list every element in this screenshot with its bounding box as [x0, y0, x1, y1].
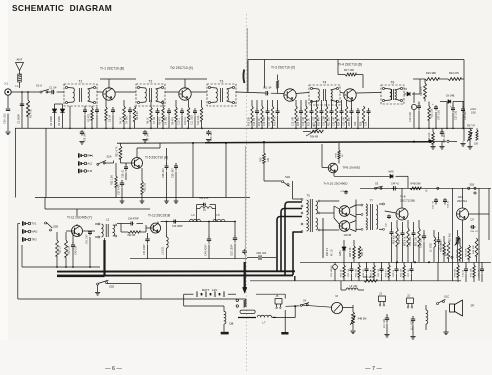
svg-text:R31 4.7K: R31 4.7K — [116, 146, 119, 157]
svg-text:R25 10K: R25 10K — [431, 108, 434, 118]
svg-text:L3 0.22: L3 0.22 — [162, 246, 165, 255]
svg-text:R4 1K: R4 1K — [120, 117, 123, 124]
svg-text:X4B 5M: X4B 5M — [358, 318, 367, 321]
svg-text:J-1: J-1 — [4, 82, 8, 86]
svg-text:SP: SP — [471, 304, 475, 308]
svg-text:C10 .1: C10 .1 — [178, 117, 181, 125]
svg-text:P0 .05: P0 .05 — [332, 249, 334, 256]
svg-text:R24 27K: R24 27K — [449, 71, 459, 75]
svg-text:C22 .047: C22 .047 — [334, 116, 336, 126]
svg-text:R9 47K: R9 47K — [172, 117, 175, 125]
svg-text:R32 1.8K: R32 1.8K — [111, 175, 114, 185]
svg-text:Tr-11 2SC495 (Y): Tr-11 2SC495 (Y) — [67, 216, 92, 220]
svg-text:C2 560P: C2 560P — [17, 114, 21, 124]
svg-text:R16 22K: R16 22K — [249, 117, 251, 126]
svg-text:S3: S3 — [375, 182, 379, 186]
svg-text:J5: J5 — [276, 294, 279, 298]
svg-text:R44 3.3K: R44 3.3K — [350, 247, 352, 257]
svg-text:— 7 —: — 7 — — [365, 366, 382, 372]
svg-text:C18 .047: C18 .047 — [303, 116, 305, 126]
svg-text:C23 .047: C23 .047 — [344, 116, 346, 126]
svg-text:S4: S4 — [303, 299, 307, 303]
svg-text:J2: J2 — [407, 294, 410, 298]
svg-text:C7 .04: C7 .04 — [153, 116, 156, 124]
svg-text:R71 10K: R71 10K — [471, 268, 473, 277]
svg-text:R27 47: R27 47 — [467, 125, 476, 128]
svg-text:SCHEMATIC DIAGRAM: SCHEMATIC DIAGRAM — [12, 3, 112, 13]
svg-text:R30 47K: R30 47K — [466, 248, 468, 257]
svg-text:R50 41K: R50 41K — [394, 235, 396, 244]
svg-text:C62 100/16: C62 100/16 — [331, 265, 333, 277]
svg-text:L0 .0082: L0 .0082 — [431, 242, 433, 252]
svg-text:C16 .047: C16 .047 — [264, 116, 266, 126]
svg-text:S1E: S1E — [109, 285, 114, 289]
svg-text:S2A: S2A — [107, 155, 112, 159]
svg-text:C38 .047: C38 .047 — [162, 168, 165, 178]
svg-text:L5: L5 — [217, 213, 220, 217]
svg-text:R70 560: R70 560 — [455, 268, 457, 277]
svg-text:R15 4.7K: R15 4.7K — [275, 116, 277, 126]
svg-text:C39 .047: C39 .047 — [172, 168, 175, 178]
svg-text:Tr-9,10 2SC496D: Tr-9,10 2SC496D — [323, 182, 348, 186]
svg-text:C14 .04: C14 .04 — [254, 117, 256, 126]
svg-text:T4: T4 — [323, 81, 327, 85]
svg-text:S1B: S1B — [470, 184, 475, 187]
svg-text:C4B .022: C4B .022 — [256, 252, 267, 255]
svg-text:C5 .0082: C5 .0082 — [441, 240, 443, 250]
svg-text:R19 1K: R19 1K — [309, 118, 311, 126]
svg-text:R1 47K: R1 47K — [29, 109, 33, 118]
svg-text:C11 .033: C11 .033 — [191, 115, 194, 125]
svg-text:C63 .04: C63 .04 — [348, 269, 350, 277]
svg-text:R3B: R3B — [336, 153, 338, 158]
svg-text:TR6 2SA562: TR6 2SA562 — [343, 166, 361, 170]
svg-text:ANT: ANT — [17, 58, 23, 62]
svg-text:TR3: TR3 — [31, 238, 37, 242]
svg-text:L9 .001: L9 .001 — [350, 285, 359, 288]
svg-text:C71 25: C71 25 — [463, 269, 465, 277]
svg-text:Tr-12 2SC191B: Tr-12 2SC191B — [148, 214, 170, 218]
svg-text:C36 .01: C36 .01 — [122, 169, 125, 178]
svg-text:C72 .05: C72 .05 — [479, 269, 481, 277]
svg-text:+: + — [411, 106, 413, 110]
svg-text:L4: L4 — [192, 213, 195, 217]
svg-text:R62 220: R62 220 — [356, 268, 358, 277]
svg-text:C9 .033: C9 .033 — [165, 116, 168, 125]
svg-text:A2B1: A2B1 — [339, 250, 342, 256]
svg-text:C4M A2NF: C4M A2NF — [205, 244, 208, 256]
svg-text:R35 1K: R35 1K — [445, 248, 447, 256]
svg-text:C4B .009: C4B .009 — [421, 238, 423, 248]
svg-text:R3B 56K: R3B 56K — [473, 245, 475, 254]
svg-text:R17 10K: R17 10K — [344, 68, 354, 72]
svg-text:R4B 56K: R4B 56K — [411, 182, 422, 186]
svg-text:T5: T5 — [307, 194, 311, 198]
svg-text:C41 1NF: C41 1NF — [86, 234, 89, 244]
svg-text:— 6 —: — 6 — — [105, 366, 122, 372]
svg-text:R36: R36 — [361, 121, 363, 126]
svg-text:R35 100: R35 100 — [144, 182, 147, 192]
svg-text:C5 .04: C5 .04 — [109, 114, 112, 122]
svg-text:D2 1N60: D2 1N60 — [58, 116, 61, 126]
svg-text:T6: T6 — [391, 81, 395, 85]
svg-text:C24: C24 — [355, 121, 357, 126]
svg-text:D1 1N60: D1 1N60 — [50, 116, 53, 126]
svg-text:R40: R40 — [260, 157, 263, 162]
svg-text:C0D 1B0P: C0D 1B0P — [231, 244, 234, 256]
svg-text:R64 4.7: R64 4.7 — [386, 269, 388, 277]
svg-text:R65 220: R65 220 — [401, 268, 403, 277]
svg-text:C44 200P: C44 200P — [143, 244, 146, 255]
svg-text:C1 .04: C1 .04 — [49, 87, 57, 90]
svg-text:Tr-4 2SC710 (D): Tr-4 2SC710 (D) — [338, 63, 362, 67]
svg-text:C66 50: C66 50 — [393, 269, 395, 277]
svg-text:C40 1MF: C40 1MF — [75, 245, 78, 255]
svg-text:C20 100P: C20 100P — [324, 115, 326, 126]
svg-text:C55 .01: C55 .01 — [470, 231, 478, 233]
svg-text:C52 .009: C52 .009 — [399, 234, 401, 244]
svg-text:R57 41K: R57 41K — [450, 233, 452, 242]
svg-text:1/50: 1/50 — [471, 112, 476, 115]
svg-text:R6 1K: R6 1K — [147, 117, 150, 124]
svg-text:R61 1B: R61 1B — [341, 269, 343, 277]
svg-text:R52 1K: R52 1K — [59, 246, 62, 254]
svg-text:5K: 5K — [313, 125, 316, 128]
svg-text:R23 39K: R23 39K — [426, 71, 436, 75]
svg-text:R5 6.8K: R5 6.8K — [136, 111, 139, 120]
svg-text:L7: L7 — [263, 321, 266, 325]
svg-text:C54 .003: C54 .003 — [410, 236, 412, 246]
svg-text:C27 100: C27 100 — [455, 110, 458, 120]
svg-text:1N0.0B: 1N0.0B — [344, 235, 352, 237]
svg-text:10K: 10K — [474, 143, 479, 146]
svg-text:R4B 1B0: R4B 1B0 — [363, 276, 373, 279]
svg-text:R12 10K: R12 10K — [197, 115, 200, 125]
svg-text:R22 47K: R22 47K — [420, 86, 423, 96]
svg-text:C19 10/6: C19 10/6 — [409, 112, 412, 122]
svg-text:C17 .047: C17 .047 — [269, 116, 271, 126]
svg-text:TX1: TX1 — [31, 222, 36, 226]
svg-text:C33 41: C33 41 — [448, 200, 450, 208]
svg-text:C26: C26 — [366, 121, 368, 126]
svg-text:R14 6R: R14 6R — [310, 136, 318, 139]
svg-text:S1-A: S1-A — [36, 84, 42, 88]
svg-text:R20 47K: R20 47K — [319, 117, 321, 126]
svg-text:P4F 4.2: P4F 4.2 — [327, 247, 329, 256]
svg-text:C32 .03: C32 .03 — [433, 201, 435, 209]
svg-text:Tr 5 2SC710 (A): Tr 5 2SC710 (A) — [145, 156, 168, 160]
svg-text:MAG: MAG — [31, 230, 37, 234]
svg-text:C4F 1B0P: C4F 1B0P — [172, 226, 183, 228]
svg-text:C15 .047: C15 .047 — [293, 116, 295, 126]
svg-text:C67 .02: C67 .02 — [408, 269, 410, 277]
svg-text:L2: L2 — [106, 218, 110, 222]
svg-text:T3: T3 — [220, 80, 224, 84]
svg-text:Tr2 2SC710 (X): Tr2 2SC710 (X) — [170, 66, 193, 70]
svg-text:R2 470: R2 470 — [88, 114, 91, 122]
svg-text:W4D: W4D — [389, 172, 394, 174]
svg-text:R45 1K: R45 1K — [362, 248, 364, 256]
svg-text:R53 10K: R53 10K — [416, 237, 418, 246]
svg-text:Tr-1 2SC710 (B): Tr-1 2SC710 (B) — [100, 67, 124, 71]
svg-text:CM 27P: CM 27P — [200, 197, 209, 200]
svg-text:S1D: S1D — [285, 175, 290, 179]
svg-text:C4T: C4T — [386, 222, 388, 227]
svg-text:S2B: S2B — [53, 225, 58, 229]
svg-text:84F 6B: 84F 6B — [128, 234, 136, 237]
svg-text:R53 10K: R53 10K — [68, 245, 71, 255]
svg-text:T1: T1 — [79, 80, 83, 84]
svg-text:T2: T2 — [149, 80, 153, 84]
svg-text:T7: T7 — [370, 199, 374, 203]
svg-text:RJ2: RJ2 — [87, 169, 92, 173]
svg-text:Ax2: Ax2 — [87, 162, 92, 166]
svg-text:R36 220: R36 220 — [457, 249, 459, 258]
svg-text:CM 400: CM 400 — [464, 111, 467, 120]
svg-text:1N 34B: 1N 34B — [446, 95, 455, 98]
svg-text:C4 .047: C4 .047 — [126, 115, 129, 124]
svg-text:C8 .047: C8 .047 — [84, 132, 87, 141]
svg-text:R10 1K: R10 1K — [184, 117, 187, 125]
svg-text:R34 330: R34 330 — [349, 117, 351, 126]
svg-text:C65 .04: C65 .04 — [378, 269, 380, 277]
svg-text:R8 47K: R8 47K — [159, 117, 162, 125]
svg-text:R18 330: R18 330 — [298, 117, 300, 126]
svg-text:C2?: C2? — [470, 220, 475, 222]
svg-text:CM-47NF: CM-47NF — [128, 218, 139, 221]
svg-text:R21 330: R21 330 — [329, 117, 331, 126]
svg-text:R28 1K: R28 1K — [339, 118, 341, 126]
svg-text:S1C: S1C — [444, 295, 449, 299]
svg-text:C37 470P: C37 470P — [118, 184, 121, 195]
svg-text:C4F 41: C4F 41 — [391, 183, 400, 186]
svg-text:C47 1/50: C47 1/50 — [438, 110, 441, 120]
svg-text:J3: J3 — [379, 292, 382, 296]
svg-text:100: 100 — [267, 157, 270, 162]
svg-text:C50 .022: C50 .022 — [3, 113, 7, 124]
svg-text:R13 1K: R13 1K — [259, 118, 261, 126]
svg-text:Tr-3 2SC710 (X): Tr-3 2SC710 (X) — [271, 66, 295, 70]
svg-text:LB: LB — [230, 322, 234, 326]
svg-text:R52 4.1K: R52 4.1K — [405, 236, 407, 246]
